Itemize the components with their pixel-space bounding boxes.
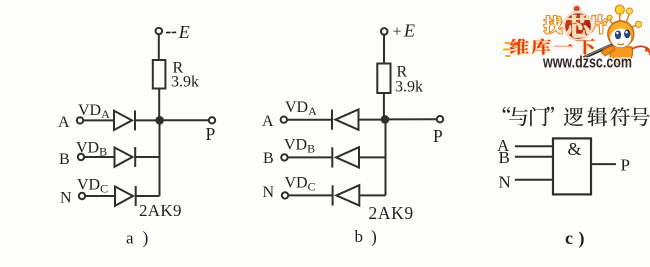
label B (c) xyxy=(499,148,510,167)
wire diode C to bus (a) xyxy=(136,195,160,197)
label P (b) xyxy=(433,126,443,146)
label 2AK9 (b) xyxy=(369,203,414,223)
wire N to diode (a) xyxy=(85,195,115,197)
wire supply to resistor (b) xyxy=(383,35,385,64)
label A (a) xyxy=(58,114,70,131)
svg-text:&: & xyxy=(568,139,582,159)
svg-text:b: b xyxy=(355,227,364,246)
wire diode A to junction (a) xyxy=(135,119,157,121)
watermark mascot antenna ball far right xyxy=(635,21,641,27)
title char 符 (c) xyxy=(610,107,630,126)
wire junction to output P (b) xyxy=(385,118,437,120)
watermark char 找 xyxy=(544,16,562,34)
wire diode B to bus (a) xyxy=(135,156,159,158)
input terminal N (a) xyxy=(79,193,85,199)
supply terminal +E (b) xyxy=(381,28,388,35)
svg-text:P: P xyxy=(433,126,443,146)
wire resistor to junction (a) xyxy=(158,89,160,121)
resistor R (b) xyxy=(377,64,390,94)
svg-text:): ) xyxy=(579,228,585,249)
watermark mascot eye glints xyxy=(616,31,628,34)
label B (a) xyxy=(59,151,70,168)
resistor R (a) xyxy=(153,60,166,89)
label VDC (a) xyxy=(77,177,108,196)
title char 逻 (c) xyxy=(564,108,584,127)
title char 门 (c) xyxy=(530,107,547,126)
svg-text:B: B xyxy=(263,150,274,167)
title quote (c) xyxy=(503,107,510,113)
watermark text 维 xyxy=(510,39,529,55)
watermark mascot tail tip xyxy=(645,46,650,52)
input wire B (c) xyxy=(515,156,553,158)
svg-text:E: E xyxy=(403,21,415,41)
watermark speed dashes xyxy=(504,43,510,56)
watermark mascot head xyxy=(608,21,634,47)
svg-text:A: A xyxy=(58,114,70,131)
label -E (a) xyxy=(166,31,176,33)
watermark mascot antenna dot lower left xyxy=(603,22,607,26)
wire supply to resistor (a) xyxy=(158,34,160,60)
label N (b) xyxy=(263,184,275,201)
svg-text:3.9k: 3.9k xyxy=(171,74,199,91)
svg-text:): ) xyxy=(371,227,377,247)
wire B to diode (b) xyxy=(288,156,333,158)
title char 与 (c) xyxy=(509,107,528,126)
label P (c) xyxy=(621,156,630,175)
watermark text 下 xyxy=(576,39,595,55)
label 2AK9 (a) xyxy=(139,201,182,220)
bus wire (b) xyxy=(385,119,387,195)
svg-text:P: P xyxy=(621,156,630,175)
label VDB (a) xyxy=(76,140,107,159)
watermark mascot eye left xyxy=(615,31,620,39)
title char 号 (c) xyxy=(631,107,650,126)
watermark glow xyxy=(510,39,595,55)
watermark magnifier knob xyxy=(573,5,580,12)
label & (c) xyxy=(568,139,582,159)
label A (c) xyxy=(497,136,510,155)
watermark mascot antenna ball center xyxy=(615,5,624,14)
svg-text:N: N xyxy=(60,190,72,207)
diode VDA (b) xyxy=(332,109,359,129)
input terminal B (b) xyxy=(281,154,287,160)
value 3.9k (a) xyxy=(171,74,199,91)
watermark mascot body xyxy=(610,46,633,64)
output terminal P (b) xyxy=(437,116,443,122)
diode VDC (b) xyxy=(333,185,360,205)
wire diode A to junction (b) xyxy=(359,119,386,121)
input wire N (c) xyxy=(515,179,553,181)
svg-text:B: B xyxy=(499,148,510,167)
svg-text:N: N xyxy=(263,184,275,201)
caption a) xyxy=(126,228,149,248)
wire A to diode (a) xyxy=(83,119,114,121)
svg-text:c: c xyxy=(565,228,573,248)
diode VDB (a) xyxy=(115,147,136,167)
watermark mascot eye right xyxy=(625,30,630,38)
svg-text:2AK9: 2AK9 xyxy=(139,201,182,220)
label A (b) xyxy=(262,113,274,130)
wire junction to output P (a) xyxy=(160,119,209,121)
wire resistor to junction (b) xyxy=(383,93,385,119)
svg-text:A: A xyxy=(262,113,274,130)
label VDA (b) xyxy=(285,99,317,118)
diode VDA (a) xyxy=(114,110,135,130)
watermark mascot antenna ball left xyxy=(607,15,612,20)
title quote (c) xyxy=(546,107,553,113)
diode VDC (a) xyxy=(115,186,136,206)
svg-text:3.9k: 3.9k xyxy=(395,79,423,96)
label VDB (b) xyxy=(284,137,315,156)
AND gate box (c) xyxy=(553,138,591,194)
svg-text:www.dzsc.com: www.dzsc.com xyxy=(542,53,632,71)
label VDC (b) xyxy=(285,175,316,194)
wire diode C to bus (b) xyxy=(359,194,385,196)
label P (a) xyxy=(206,124,216,144)
caption c) xyxy=(565,228,585,249)
svg-text:a: a xyxy=(126,229,134,248)
watermark mascot tail xyxy=(632,46,650,55)
watermark magnifier stick xyxy=(584,45,613,58)
supply terminal -E (a) xyxy=(156,28,163,35)
watermark mascot legs xyxy=(613,61,630,66)
wire diode B to bus (b) xyxy=(359,156,386,158)
svg-text:N: N xyxy=(499,173,511,192)
svg-text:E: E xyxy=(178,22,190,42)
diode VDB (b) xyxy=(332,147,359,167)
wire N to diode (b) xyxy=(288,194,332,196)
watermark mascot mouth xyxy=(618,44,624,45)
label N (c) xyxy=(499,173,511,192)
watermark mascot arm xyxy=(601,46,615,56)
svg-text:B: B xyxy=(59,151,70,168)
input wire A (c) xyxy=(515,145,553,147)
bus wire (a) xyxy=(159,120,161,196)
value 3.9k (b) xyxy=(395,79,423,96)
input terminal A (b) xyxy=(281,117,287,123)
watermark char 片 xyxy=(589,15,607,33)
label N (a) xyxy=(60,190,72,207)
title char 辑 (c) xyxy=(587,107,607,126)
watermark magnifier lens xyxy=(564,12,592,40)
watermark text 库 xyxy=(531,38,551,54)
node junction (b) xyxy=(381,115,390,124)
svg-text:P: P xyxy=(206,124,216,144)
label +E (b) xyxy=(393,21,416,41)
caption b) xyxy=(355,227,378,247)
label VDA (a) xyxy=(78,102,110,121)
input terminal A (a) xyxy=(77,117,83,123)
label R (b) xyxy=(397,64,408,81)
svg-text:+: + xyxy=(393,23,402,40)
svg-text:): ) xyxy=(143,228,149,248)
input terminal B (a) xyxy=(78,154,84,160)
watermark mascot face xyxy=(610,29,631,48)
wire B to diode (a) xyxy=(84,156,114,158)
output terminal P (a) xyxy=(209,117,215,123)
node junction (a) xyxy=(155,116,164,125)
wire A to diode (b) xyxy=(287,119,332,121)
watermark mascot antenna stalks xyxy=(610,14,637,28)
input terminal N (b) xyxy=(282,192,288,198)
label R (a) xyxy=(173,60,184,77)
label B (b) xyxy=(263,150,274,167)
watermark text 一 xyxy=(554,44,573,47)
output wire P (c) xyxy=(591,163,616,165)
svg-text:2AK9: 2AK9 xyxy=(369,203,414,223)
watermark mascot antenna ball right xyxy=(626,8,632,14)
watermark char 芯 in magnifier xyxy=(567,15,590,37)
